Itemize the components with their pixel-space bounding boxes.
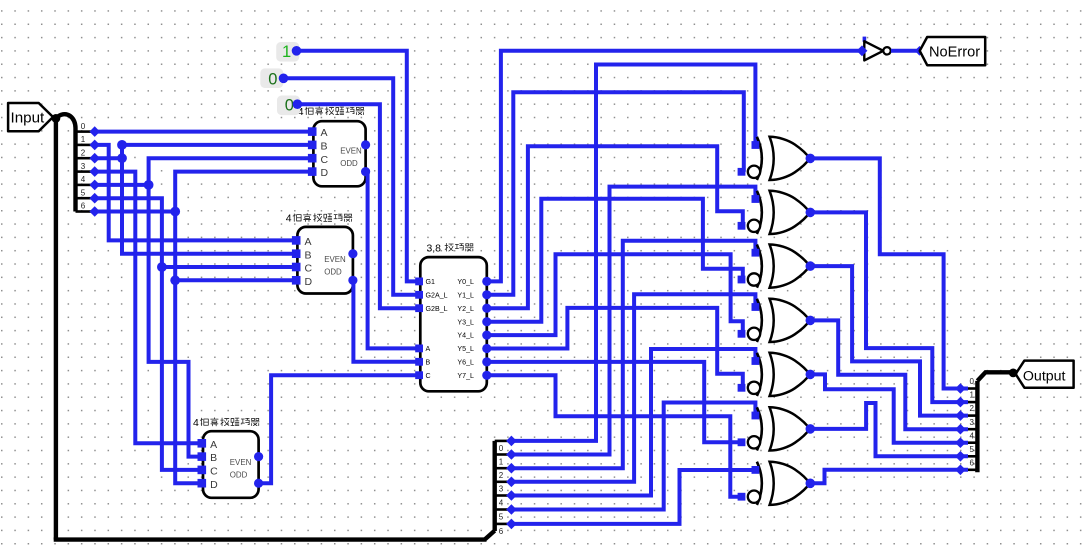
- wire checker3 ODD to decoder C: [259, 375, 421, 483]
- splitter SP2 leg bit4: [495, 494, 508, 497]
- pin A of U3: [198, 439, 207, 448]
- svg-text:4: 4: [193, 418, 199, 429]
- wire XOR5 output to SP3 bit4: [810, 374, 968, 442]
- wire Y1_L to XOR1 neg input: [487, 92, 744, 295]
- pin B of decoder: [415, 358, 423, 366]
- splitter SP1 leg bit5: [76, 197, 92, 200]
- svg-text:4: 4: [970, 431, 975, 440]
- pin C of decoder: [415, 371, 423, 379]
- pin Y7_L of decoder: [482, 371, 491, 380]
- pin ODD output of U3: [254, 479, 263, 488]
- node bus to Output junction: [1009, 369, 1018, 378]
- svg-text:0: 0: [268, 71, 277, 89]
- svg-text:D: D: [305, 276, 313, 288]
- constant K1 value 1: [276, 42, 299, 62]
- svg-text:C: C: [321, 154, 329, 166]
- svg-text:Y5_L: Y5_L: [457, 345, 474, 353]
- node XOR3 neg input: [738, 276, 746, 284]
- svg-text:EVEN: EVEN: [230, 458, 252, 467]
- svg-text:4: 4: [499, 498, 504, 507]
- wire bit6 up to checker1 D: [175, 172, 313, 212]
- svg-text:Output: Output: [1023, 369, 1066, 385]
- wire constant 0 to decoder G2A_L: [284, 78, 421, 294]
- node XOR6 output: [806, 424, 816, 434]
- pin C of U3: [198, 466, 207, 475]
- pin A of U2: [292, 236, 301, 245]
- wire bit5 from SP2 to XOR6 top input: [511, 403, 755, 510]
- decoder U4 3-to-8 box: [420, 257, 487, 391]
- splitter SP3 leg bit4: [964, 441, 977, 444]
- svg-text:B: B: [321, 141, 328, 153]
- splitter SP2 leg bit1: [495, 453, 508, 456]
- xor gate X7: [748, 462, 810, 505]
- svg-text:Y0_L: Y0_L: [457, 278, 474, 286]
- splitter SP3 leg bit5: [964, 455, 977, 458]
- svg-text:C: C: [426, 372, 431, 380]
- node XOR4 neg input: [738, 330, 746, 338]
- wire bit2 from SP2 to XOR3 top input: [511, 241, 755, 468]
- parity checker U2 box: [297, 227, 353, 294]
- svg-text:1: 1: [970, 391, 975, 400]
- pin Y0_L of decoder: [482, 277, 491, 286]
- pin G1 of decoder: [415, 278, 423, 286]
- wire bit1 from SP2 to XOR2 top input: [511, 187, 755, 455]
- wire bit5 row: [95, 198, 203, 470]
- pin D of U3: [198, 479, 207, 488]
- svg-text:5: 5: [970, 445, 975, 454]
- wire Y2_L to XOR2 neg input: [487, 146, 743, 308]
- wire bit0 row to checker1 A: [95, 130, 314, 134]
- wire output bus to Output pin: [977, 372, 1013, 381]
- wire bit1 to checker2 A: [95, 145, 298, 241]
- svg-text:0: 0: [970, 377, 975, 386]
- svg-text:G2B_L: G2B_L: [426, 305, 448, 313]
- node XOR1 output: [806, 154, 816, 164]
- svg-text:A: A: [321, 127, 328, 139]
- svg-text:0: 0: [285, 97, 294, 115]
- svg-text:Input: Input: [11, 110, 46, 127]
- wire XOR7 output to SP3 bit6: [810, 470, 968, 484]
- svg-text:B: B: [426, 358, 431, 366]
- svg-text:2: 2: [81, 148, 86, 157]
- wire XOR1 output to SP3 bit0: [810, 158, 968, 388]
- pin Y1_L of decoder: [482, 290, 491, 299]
- wire bit2 branch to checker1 B: [122, 143, 313, 147]
- pin B of U3: [198, 452, 207, 461]
- svg-text:1: 1: [499, 457, 504, 466]
- node XOR7 top input: [752, 466, 760, 474]
- splitter SP3 leg bit2: [964, 414, 977, 417]
- node XOR7 neg input: [738, 493, 746, 501]
- node XOR5 top input: [752, 357, 760, 365]
- pin C of U2: [292, 263, 301, 272]
- svg-text:D: D: [210, 479, 218, 491]
- splitter SP1 leg bit4: [76, 184, 92, 187]
- bus junction at Input tip: [52, 114, 61, 123]
- wire bit3 from SP2 to XOR4 top input: [511, 294, 755, 482]
- output pin NoError: [920, 37, 986, 65]
- wire Y6_L to XOR6 neg input: [487, 362, 743, 442]
- xor gate X3: [748, 245, 810, 288]
- wire bit6 down to checker3 D: [175, 212, 203, 484]
- node NOT gate input tick: [863, 37, 867, 42]
- constant K2 value 0: [260, 68, 283, 88]
- svg-text:1: 1: [282, 43, 291, 61]
- constant K3 value 0: [277, 96, 300, 116]
- svg-text:Y4_L: Y4_L: [457, 332, 474, 340]
- node XOR2 neg input: [738, 222, 746, 230]
- splitter SP2 leg bit5: [495, 508, 508, 511]
- pin C of U1: [308, 154, 317, 163]
- splitter SP1 leg bit1: [76, 144, 92, 147]
- svg-text:3: 3: [970, 418, 975, 427]
- svg-text:A: A: [210, 439, 217, 451]
- svg-text:NoError: NoError: [929, 44, 980, 60]
- node XOR6 top input: [752, 412, 760, 420]
- splitter SP3 spine (output): [975, 381, 979, 472]
- xor gate X2: [748, 191, 810, 234]
- splitter SP3 leg bit3: [964, 428, 977, 431]
- xor gate X1: [748, 137, 810, 180]
- pin Y3_L of decoder: [482, 317, 491, 326]
- xor gate X4: [748, 299, 810, 342]
- wire XOR4 output to SP3 bit3: [810, 320, 968, 429]
- wire checker1 ODD to decoder A: [366, 172, 421, 349]
- NOT gate G8: [864, 41, 883, 60]
- wire bus diagonal into splitter 2: [485, 531, 495, 540]
- pin EVEN output of U1: [361, 140, 370, 149]
- node XOR4 output: [806, 316, 816, 326]
- pin Y6_L of decoder: [482, 357, 491, 366]
- splitter SP3 leg bit6: [964, 468, 977, 471]
- pin B of U2: [292, 249, 301, 258]
- svg-text:0: 0: [81, 122, 86, 131]
- pin A of U1: [308, 127, 317, 136]
- wire bit6 row: [95, 210, 176, 214]
- wire bit6 from SP2 to XOR7 top input: [511, 470, 755, 524]
- node NOT input junction: [857, 45, 868, 56]
- wire Y3_L to XOR3 neg input: [487, 199, 743, 322]
- svg-text:0: 0: [499, 444, 504, 453]
- wire XOR6 output to SP3 bit5: [810, 403, 968, 456]
- wire bit4 from SP2 to XOR5 top input: [511, 349, 755, 496]
- wire constant 0 to decoder G2B_L: [297, 104, 420, 308]
- parity checker U3 box: [203, 431, 259, 498]
- splitter SP1 leg bit0: [76, 130, 92, 133]
- wire input bus vertical to bottom: [54, 118, 58, 539]
- svg-text:Y3_L: Y3_L: [457, 318, 474, 326]
- pin Y5_L of decoder: [482, 344, 491, 353]
- wire bit2 row to checker2 B: [95, 158, 298, 254]
- wire input bus bottom run: [54, 537, 487, 541]
- splitter SP3 leg bit0: [964, 387, 977, 390]
- pin EVEN output of U2: [348, 249, 357, 258]
- pin ODD output of U2: [348, 276, 357, 285]
- svg-text:C: C: [305, 263, 313, 275]
- pin Y2_L of decoder: [482, 304, 491, 313]
- pin Y4_L of decoder: [482, 331, 491, 340]
- splitter SP2 leg bit6: [495, 523, 508, 526]
- splitter SP1 leg bit6: [76, 210, 92, 213]
- splitter SP1 spine: [56, 114, 76, 211]
- xor gate X5: [748, 353, 810, 396]
- pin D of U1: [308, 167, 317, 176]
- svg-text:Y6_L: Y6_L: [457, 359, 474, 367]
- splitter SP3 leg bit1: [964, 401, 977, 404]
- parity checker U1 box: [313, 121, 365, 186]
- svg-text:G2A_L: G2A_L: [426, 291, 448, 299]
- wire Y7_L to XOR7 neg input: [487, 375, 743, 496]
- svg-text:D: D: [321, 167, 329, 179]
- node XOR5 output: [806, 370, 816, 380]
- splitter SP2 leg bit2: [495, 467, 508, 470]
- wire bit4 row: [95, 183, 149, 187]
- wire bit4 branch up to checker1 C: [149, 158, 314, 185]
- node XOR4 top input: [752, 303, 760, 311]
- svg-text:6: 6: [499, 527, 504, 536]
- svg-text:4: 4: [286, 214, 292, 225]
- node XOR2 output: [806, 208, 816, 218]
- svg-text:2: 2: [970, 404, 975, 413]
- node XOR1 neg input: [738, 168, 746, 176]
- node XOR5 neg input: [738, 384, 746, 392]
- svg-text:B: B: [210, 452, 217, 464]
- svg-text:Y7_L: Y7_L: [457, 372, 474, 380]
- wire Y5_L to XOR5 neg input: [487, 308, 743, 388]
- pin G2B_L of decoder: [415, 304, 423, 312]
- wire checker2 ODD to decoder B: [353, 280, 420, 362]
- svg-text:A: A: [426, 345, 431, 353]
- svg-text:ODD: ODD: [230, 471, 248, 480]
- svg-text:ODD: ODD: [324, 268, 342, 277]
- pin ODD output of U1: [361, 167, 370, 176]
- xor gate X6: [748, 407, 810, 450]
- wire XOR2 output to SP3 bit1: [810, 212, 968, 402]
- input pin Input: [8, 103, 53, 131]
- svg-text:3: 3: [81, 162, 86, 171]
- svg-text:4: 4: [81, 175, 86, 184]
- wire bit5 branch to checker2 C: [162, 265, 298, 269]
- wire bit0 from SP2 to XOR1 top input: [511, 65, 755, 441]
- node XOR1 top input: [752, 141, 760, 149]
- svg-text:1: 1: [81, 135, 86, 144]
- svg-text:Y2_L: Y2_L: [457, 305, 474, 313]
- wire bit3 to checker3 A: [95, 172, 203, 444]
- output pin Output: [1016, 361, 1074, 388]
- svg-text:5: 5: [499, 512, 504, 521]
- node XOR2 top input: [752, 195, 760, 203]
- wire Y4_L to XOR4 neg input: [487, 254, 743, 335]
- splitter SP2 leg bit0: [495, 440, 508, 443]
- pin B of U1: [308, 141, 317, 150]
- pin A of decoder: [415, 345, 423, 353]
- svg-text:5: 5: [81, 188, 86, 197]
- svg-text:A: A: [305, 236, 312, 248]
- wire Y0_L to NOT gate: [487, 51, 862, 282]
- wire constant 1 to decoder G1: [297, 51, 421, 282]
- svg-text:Y1_L: Y1_L: [457, 291, 474, 299]
- wire bit6 branch to checker2 D: [175, 278, 297, 282]
- splitter SP1 leg bit3: [76, 170, 92, 173]
- svg-text:3: 3: [499, 485, 504, 494]
- node XOR3 top input: [752, 249, 760, 257]
- svg-text:C: C: [210, 466, 218, 478]
- wire NOT gate to NoError: [891, 49, 920, 53]
- svg-text:2: 2: [499, 471, 504, 480]
- pin G2A_L of decoder: [415, 291, 423, 299]
- svg-text:6: 6: [970, 458, 975, 467]
- svg-text:ODD: ODD: [340, 159, 358, 168]
- node XOR7 output: [806, 479, 816, 489]
- node XOR6 neg input: [738, 438, 746, 446]
- svg-text:B: B: [305, 249, 312, 261]
- splitter SP1 leg bit2: [76, 157, 92, 160]
- svg-text:EVEN: EVEN: [324, 255, 346, 264]
- node XOR3 output: [806, 261, 816, 271]
- wire XOR3 output to SP3 bit2: [810, 266, 968, 416]
- splitter SP2 leg bit3: [495, 480, 508, 483]
- pin EVEN output of U3: [254, 452, 263, 461]
- svg-text:3,8: 3,8: [427, 243, 442, 254]
- wire bit4 down to checker3 B: [149, 185, 203, 457]
- pin D of U2: [292, 276, 301, 285]
- splitter SP2 spine: [493, 441, 497, 531]
- svg-text:G1: G1: [426, 278, 436, 286]
- svg-text:6: 6: [81, 202, 86, 211]
- svg-text:EVEN: EVEN: [340, 146, 362, 155]
